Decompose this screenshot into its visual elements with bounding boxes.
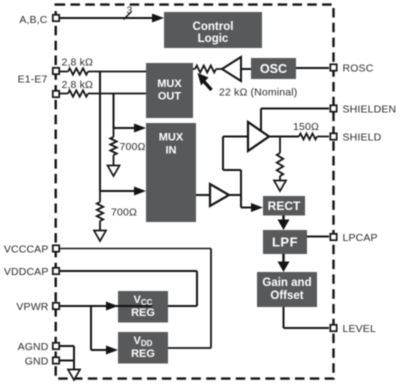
wire shield driver input elbow <box>223 137 248 208</box>
arrow RECT to LPF <box>282 216 284 222</box>
svg-text:VCCCAP: VCCCAP <box>4 244 49 256</box>
block OSC <box>251 58 296 79</box>
svg-text:2,8 kΩ: 2,8 kΩ <box>62 79 94 91</box>
block MUX OUT <box>146 63 193 118</box>
svg-text:REG: REG <box>131 348 155 360</box>
resistor 2,8k R1 <box>60 68 146 74</box>
resistor 150 <box>299 134 329 140</box>
block MUX IN <box>146 123 196 222</box>
pin GND <box>25 356 59 368</box>
svg-text:RECT: RECT <box>268 199 301 213</box>
buffer osc triangle <box>222 57 241 81</box>
svg-text:LPCAP: LPCAP <box>343 232 378 244</box>
pin A,B,C <box>19 14 59 26</box>
svg-text:A,B,C: A,B,C <box>19 14 47 26</box>
open arrow ground below R3 <box>108 166 120 177</box>
svg-text:Logic: Logic <box>198 33 229 45</box>
bus slash <box>124 12 132 20</box>
resistor 22k trim <box>193 66 222 73</box>
svg-text:ROSC: ROSC <box>343 63 374 75</box>
pin VPWR <box>16 301 59 313</box>
wire VCCCAP to Vdd REG <box>60 248 211 250</box>
resistor 2,8k R2 <box>60 90 146 96</box>
open arrow ground below R4 <box>94 231 106 242</box>
svg-text:IN: IN <box>166 145 177 157</box>
pin ROSC <box>330 63 373 75</box>
pin SHIELDEN <box>330 104 396 116</box>
block Control Logic <box>164 12 262 48</box>
wire VPWR branch to Vdd REG <box>91 306 106 350</box>
svg-text:VDDCAP: VDDCAP <box>4 266 49 278</box>
svg-text:700Ω: 700Ω <box>111 207 137 219</box>
wire AGND <box>60 346 74 369</box>
block Vdd REG U-vddreg <box>118 332 168 364</box>
dashed boundary box <box>56 5 334 379</box>
wire VPWR to Vcc REG <box>60 305 152 307</box>
svg-text:Gain and: Gain and <box>262 277 311 289</box>
ground symbol <box>68 370 80 381</box>
svg-text:3: 3 <box>127 5 133 17</box>
svg-text:Control: Control <box>193 21 234 33</box>
buffer to RECT triangle <box>210 184 229 206</box>
wire Gain to LEVEL <box>284 307 330 328</box>
wire node E2 down to MUX IN upper input <box>114 94 136 129</box>
svg-text:SHIELD: SHIELD <box>343 132 382 144</box>
svg-text:MUX: MUX <box>159 132 184 144</box>
svg-text:AGND: AGND <box>18 341 49 353</box>
shield driver triangle <box>248 122 269 151</box>
svg-text:2,8 kΩ: 2,8 kΩ <box>62 57 94 69</box>
resistor shield sense vertical <box>277 137 283 181</box>
svg-text:Offset: Offset <box>270 290 303 302</box>
wire OSC to ROSC <box>296 67 329 69</box>
open arrow below shield resistor <box>274 181 286 192</box>
pin SHIELD <box>330 132 381 144</box>
svg-text:700Ω: 700Ω <box>120 141 146 153</box>
resistor 700 R4 <box>97 191 103 230</box>
wire SHIELDEN <box>261 109 329 131</box>
wire node E1 down to MUX IN lower input <box>100 72 135 192</box>
pin LPCAP <box>330 232 377 244</box>
arrow LPF to Gain <box>282 254 284 262</box>
wire ABC bus <box>60 17 153 19</box>
svg-text:OUT: OUT <box>158 91 182 103</box>
arrowhead into Control Logic <box>152 14 164 23</box>
trim cursor arrow <box>198 73 209 86</box>
svg-text:GND: GND <box>25 356 49 368</box>
pin E1 <box>53 68 59 74</box>
block LPF <box>263 230 307 254</box>
wire LPF to LPCAP <box>307 236 329 238</box>
pin VDDCAP <box>4 266 59 278</box>
svg-text:REG: REG <box>131 307 155 319</box>
arrowhead into MUX IN upper <box>134 124 146 133</box>
svg-text:E1-E7: E1-E7 <box>18 74 48 86</box>
pin LEVEL <box>330 323 376 335</box>
svg-text:OSC: OSC <box>260 62 287 76</box>
arrowhead into RECT <box>251 203 263 212</box>
svg-text:150Ω: 150Ω <box>293 121 319 133</box>
block Vcc REG U-vccreg <box>118 291 168 323</box>
wire MUX IN to buffer <box>196 194 210 196</box>
wire shield output <box>269 136 299 138</box>
wire buffer out <box>229 195 252 208</box>
wire GND <box>60 360 74 362</box>
pin E2 <box>53 91 59 97</box>
wire osc buffer to OSC <box>241 68 251 70</box>
block RECT <box>263 196 305 216</box>
svg-text:SHIELDEN: SHIELDEN <box>343 104 397 116</box>
block Gain and Offset <box>257 272 317 307</box>
svg-text:22 kΩ (Nominal): 22 kΩ (Nominal) <box>219 87 297 99</box>
resistor 700 R3 <box>110 128 116 165</box>
wire VDDCAP to Vcc REG <box>60 271 197 306</box>
arrowhead into MUX IN lower <box>134 187 146 196</box>
svg-text:LEVEL: LEVEL <box>343 323 376 335</box>
pin AGND <box>18 341 60 353</box>
svg-text:MUX: MUX <box>157 78 182 90</box>
pin VCCCAP <box>4 244 59 256</box>
svg-text:LPF: LPF <box>272 235 298 250</box>
svg-text:VPWR: VPWR <box>16 301 48 313</box>
